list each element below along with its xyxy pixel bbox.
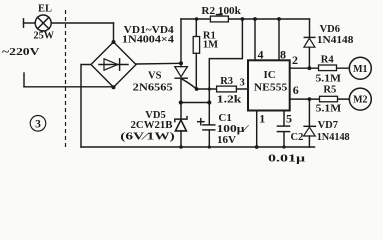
svg-text:5.1M: 5.1M <box>316 104 342 115</box>
svg-text:R3: R3 <box>220 76 233 87</box>
svg-text:~220V: ~220V <box>2 46 40 58</box>
svg-text:2N6565: 2N6565 <box>133 83 173 94</box>
svg-text:1N4148: 1N4148 <box>317 35 354 46</box>
svg-text:1N4148: 1N4148 <box>317 132 350 143</box>
svg-text:5.1M: 5.1M <box>316 74 342 85</box>
svg-text:3: 3 <box>35 119 41 131</box>
svg-text:C1: C1 <box>218 112 231 124</box>
svg-text:M1: M1 <box>353 64 367 75</box>
svg-text:M2: M2 <box>353 95 367 106</box>
svg-text:1: 1 <box>259 112 265 126</box>
svg-text:EL: EL <box>38 3 52 14</box>
svg-text:IC: IC <box>264 69 276 81</box>
svg-text:100μ∕: 100μ∕ <box>217 124 250 135</box>
svg-text:VD6: VD6 <box>320 24 340 35</box>
svg-text:C2: C2 <box>291 132 304 143</box>
svg-text:4: 4 <box>258 48 264 62</box>
svg-text:R5: R5 <box>323 85 336 96</box>
svg-text:1M: 1M <box>203 40 218 51</box>
svg-text:1.2k: 1.2k <box>217 94 242 105</box>
svg-text:8: 8 <box>280 48 286 62</box>
svg-text:2: 2 <box>292 53 298 67</box>
svg-text:0.01μ: 0.01μ <box>268 154 305 165</box>
svg-text:1N4004×4: 1N4004×4 <box>122 35 175 46</box>
svg-text:2CW21B: 2CW21B <box>131 120 173 131</box>
svg-text:5: 5 <box>286 112 292 126</box>
svg-text:3: 3 <box>240 78 245 89</box>
svg-text:16V: 16V <box>217 135 236 146</box>
svg-text:25W: 25W <box>34 31 55 42</box>
svg-text:VS: VS <box>148 70 162 81</box>
svg-text:VD7: VD7 <box>318 120 338 131</box>
svg-text:R4: R4 <box>321 55 335 66</box>
svg-text:NE555: NE555 <box>254 83 287 94</box>
svg-text:6: 6 <box>293 83 299 97</box>
svg-text:(6V∕1W): (6V∕1W) <box>120 132 175 143</box>
svg-text:R2 100k: R2 100k <box>201 6 241 17</box>
